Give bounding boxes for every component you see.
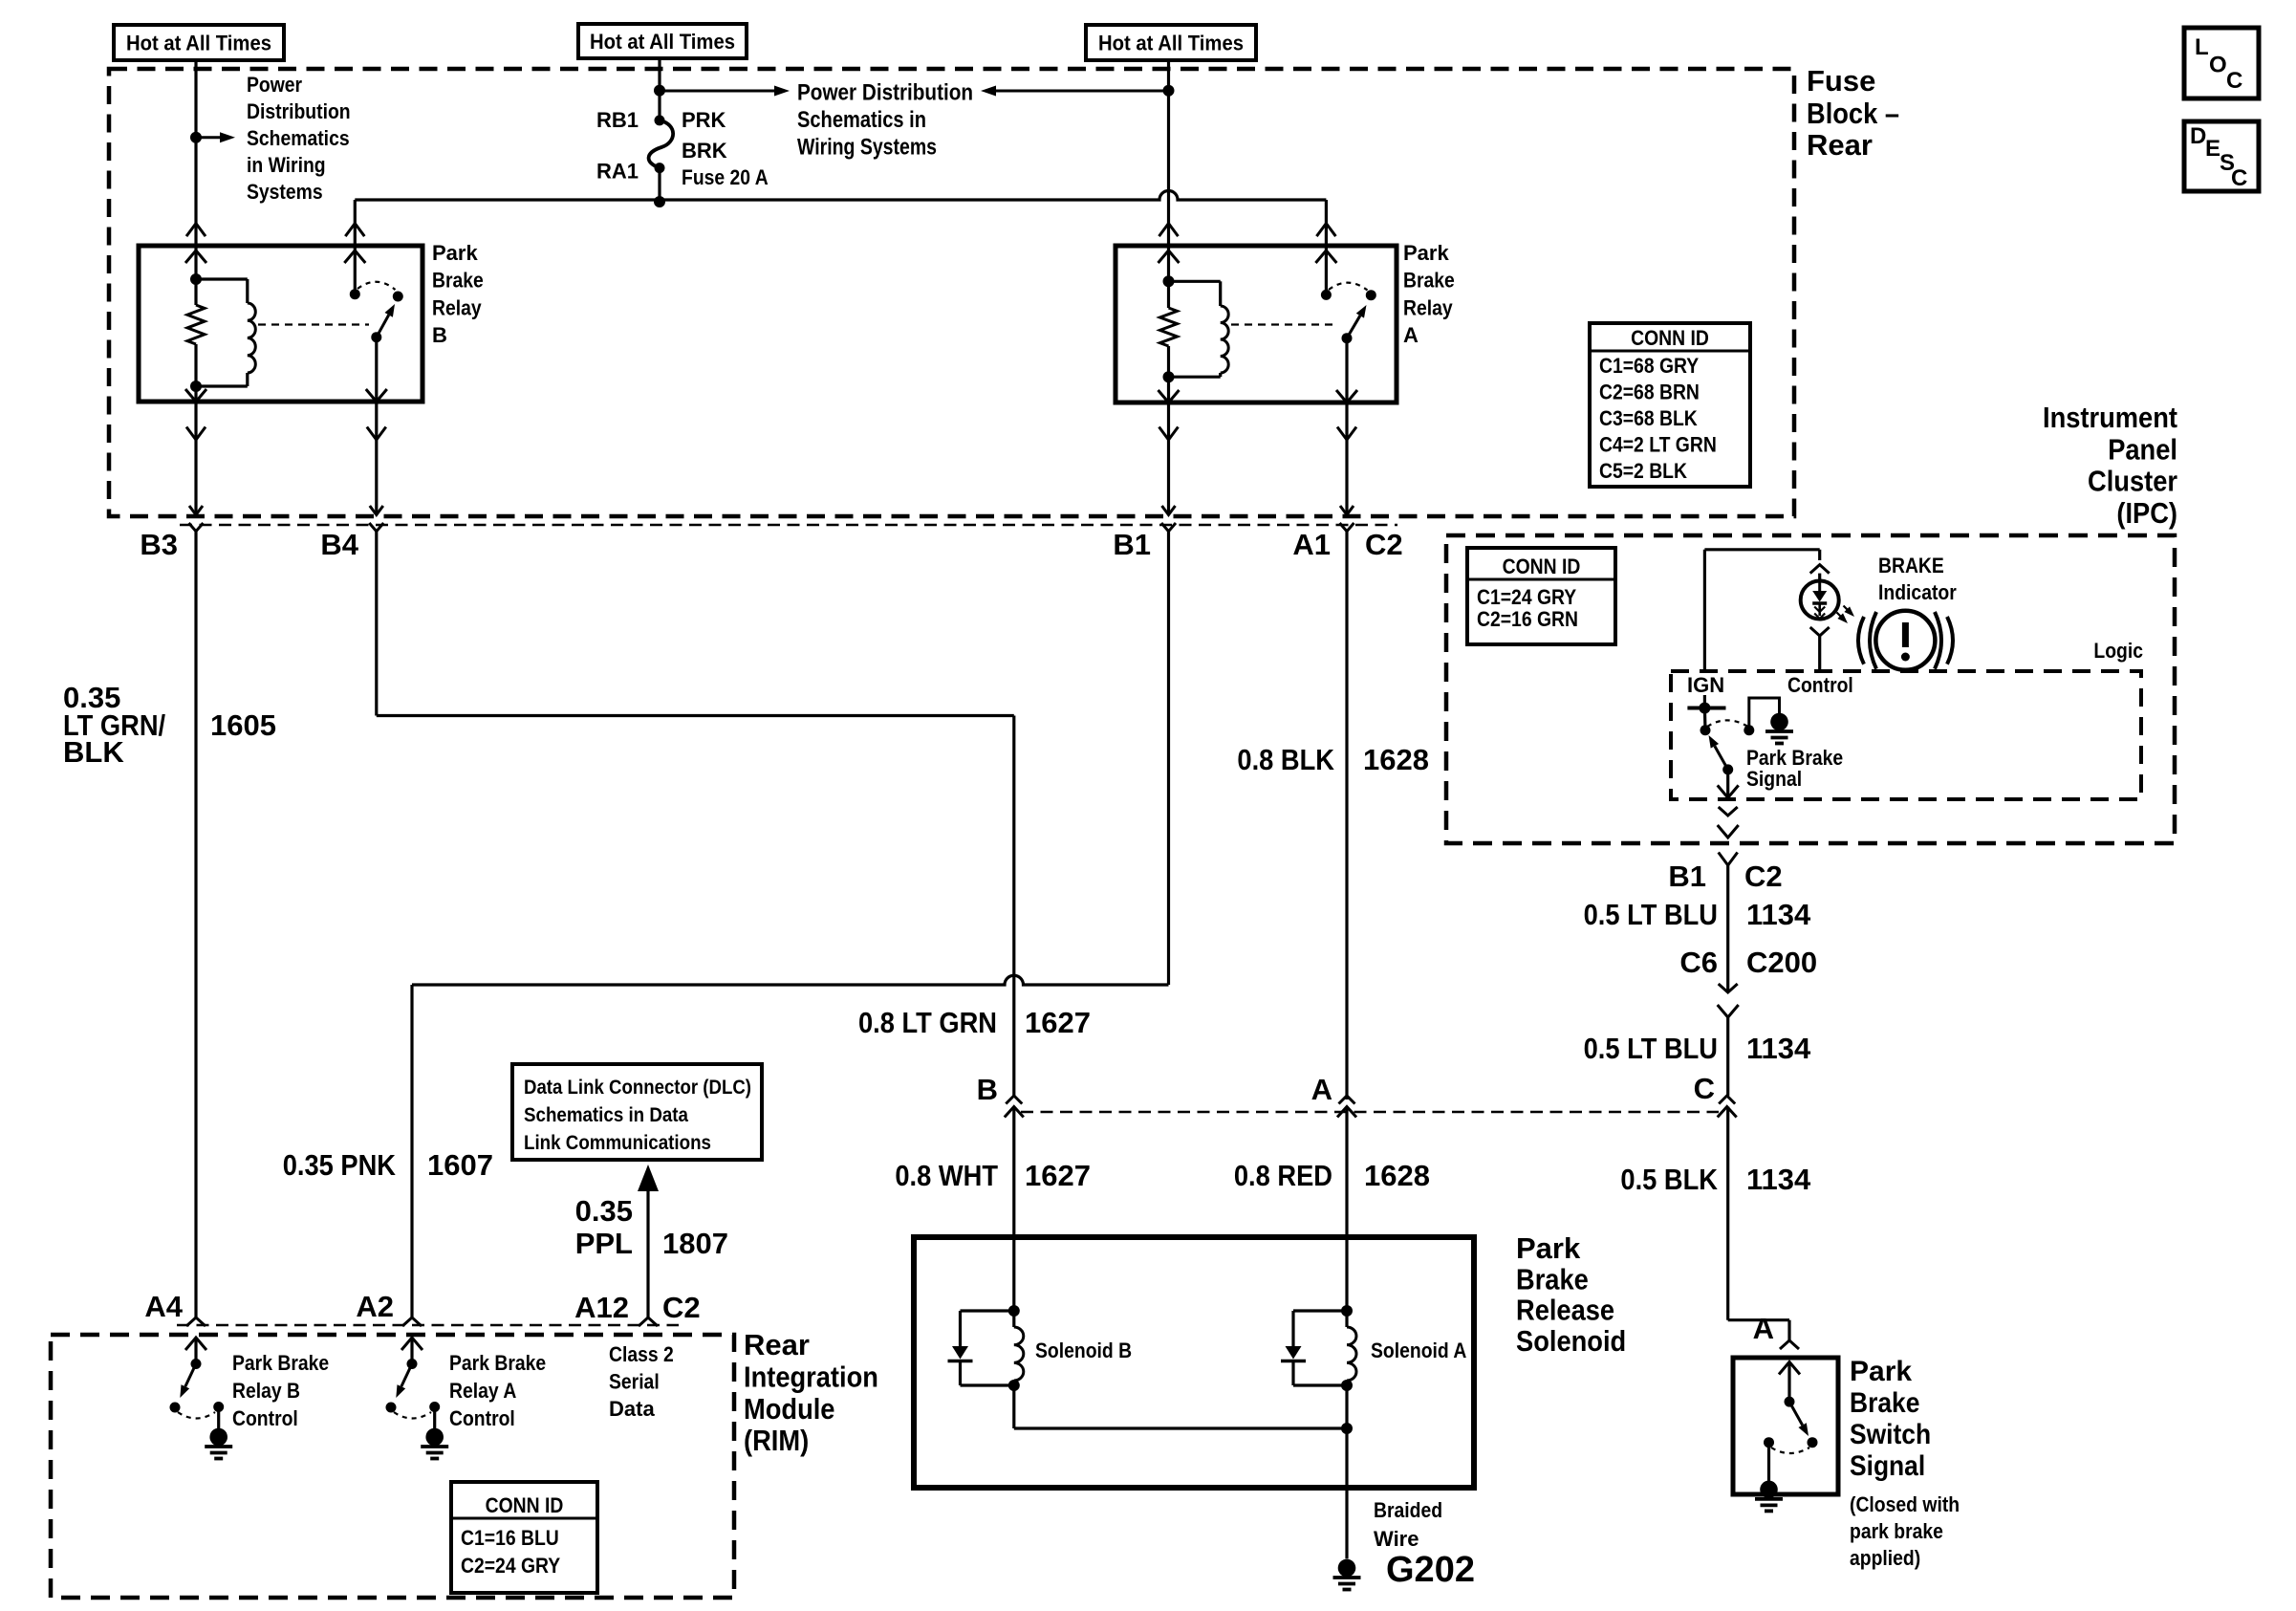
svg-text:B4: B4 (320, 528, 358, 561)
svg-text:Data: Data (609, 1397, 655, 1421)
svg-text:B1: B1 (1113, 528, 1151, 561)
svg-text:Panel: Panel (2108, 432, 2177, 466)
svg-text:C2=68 BRN: C2=68 BRN (1599, 381, 1700, 404)
svg-text:1807: 1807 (662, 1227, 728, 1260)
svg-text:O: O (2209, 53, 2227, 78)
svg-text:Integration: Integration (744, 1360, 878, 1393)
svg-text:C4=2 LT GRN: C4=2 LT GRN (1599, 433, 1717, 457)
svg-text:0.5 LT BLU: 0.5 LT BLU (1584, 898, 1718, 931)
svg-text:G202: G202 (1386, 1550, 1475, 1590)
svg-text:0.8 WHT: 0.8 WHT (895, 1159, 998, 1192)
svg-text:RA1: RA1 (596, 160, 639, 184)
svg-text:Switch: Switch (1850, 1419, 1931, 1450)
svg-text:1628: 1628 (1364, 1159, 1430, 1192)
svg-text:BRK: BRK (682, 139, 727, 163)
svg-text:C6: C6 (1679, 946, 1718, 979)
svg-text:B: B (977, 1073, 998, 1106)
svg-text:(Closed with: (Closed with (1850, 1492, 1960, 1516)
svg-text:Relay A: Relay A (449, 1379, 516, 1403)
svg-text:C5=2 BLK: C5=2 BLK (1599, 459, 1687, 483)
svg-text:C2=16 GRN: C2=16 GRN (1477, 607, 1578, 631)
svg-text:D: D (2190, 123, 2206, 149)
svg-text:1134: 1134 (1746, 898, 1811, 931)
svg-text:E: E (2205, 136, 2220, 162)
svg-text:B: B (432, 323, 447, 347)
svg-text:Relay B: Relay B (232, 1379, 300, 1403)
svg-text:A1: A1 (1292, 528, 1331, 561)
svg-text:Control: Control (449, 1406, 515, 1430)
svg-text:Control: Control (1787, 673, 1853, 697)
svg-text:applied): applied) (1850, 1546, 1920, 1570)
svg-text:Schematics: Schematics (247, 126, 350, 150)
svg-text:C2: C2 (1744, 860, 1783, 893)
svg-text:A12: A12 (574, 1291, 629, 1324)
svg-text:A4: A4 (144, 1290, 183, 1323)
svg-text:CONN ID: CONN ID (486, 1493, 564, 1517)
svg-text:Rear: Rear (1807, 128, 1873, 162)
svg-text:Park: Park (1516, 1231, 1581, 1265)
svg-text:Rear: Rear (744, 1328, 810, 1361)
svg-text:0.5 BLK: 0.5 BLK (1620, 1163, 1718, 1196)
svg-text:Systems: Systems (247, 180, 323, 204)
svg-text:Data Link Connector (DLC): Data Link Connector (DLC) (524, 1077, 751, 1099)
svg-text:Solenoid B: Solenoid B (1035, 1339, 1132, 1362)
svg-text:C: C (2231, 165, 2247, 191)
svg-text:1607: 1607 (427, 1148, 493, 1182)
svg-text:Wiring Systems: Wiring Systems (797, 135, 937, 161)
svg-text:(RIM): (RIM) (744, 1424, 809, 1457)
svg-text:B3: B3 (140, 528, 178, 561)
svg-text:Brake: Brake (1403, 269, 1455, 293)
svg-text:park brake: park brake (1850, 1519, 1943, 1543)
svg-text:Braided: Braided (1374, 1498, 1442, 1522)
svg-text:Wire: Wire (1374, 1527, 1419, 1551)
svg-text:BRAKE: BRAKE (1878, 554, 1944, 577)
svg-text:RB1: RB1 (596, 108, 639, 132)
svg-text:Relay: Relay (432, 295, 482, 319)
svg-text:C1=68 GRY: C1=68 GRY (1599, 354, 1699, 378)
svg-text:Class 2: Class 2 (609, 1342, 674, 1366)
svg-text:1628: 1628 (1363, 743, 1429, 776)
svg-text:Park: Park (1850, 1356, 1912, 1387)
svg-text:Brake: Brake (432, 269, 484, 293)
svg-text:Indicator: Indicator (1878, 580, 1957, 604)
svg-text:A: A (1403, 323, 1419, 347)
svg-text:Park: Park (432, 241, 478, 265)
svg-text:0.8 LT GRN: 0.8 LT GRN (858, 1006, 997, 1039)
svg-text:Brake: Brake (1516, 1262, 1589, 1295)
svg-text:0.8 BLK: 0.8 BLK (1237, 743, 1334, 776)
svg-text:A: A (1753, 1312, 1774, 1345)
svg-text:C2: C2 (1365, 528, 1403, 561)
svg-text:Hot at All Times: Hot at All Times (126, 32, 271, 55)
svg-text:C1=16 BLU: C1=16 BLU (461, 1526, 559, 1550)
svg-text:C2: C2 (662, 1291, 701, 1324)
svg-text:Power: Power (247, 73, 302, 97)
svg-text:C: C (1694, 1072, 1715, 1105)
svg-text:C: C (2226, 68, 2242, 94)
svg-text:1605: 1605 (210, 708, 276, 742)
svg-text:B1: B1 (1668, 860, 1706, 893)
svg-text:1627: 1627 (1025, 1159, 1091, 1192)
svg-text:0.35: 0.35 (575, 1194, 633, 1228)
svg-text:Power Distribution: Power Distribution (797, 80, 973, 106)
svg-text:(IPC): (IPC) (2116, 496, 2177, 530)
svg-text:Schematics in Data: Schematics in Data (524, 1104, 688, 1126)
svg-text:C3=68 BLK: C3=68 BLK (1599, 406, 1698, 430)
svg-text:in Wiring: in Wiring (247, 153, 326, 177)
svg-text:1134: 1134 (1746, 1163, 1811, 1196)
svg-text:Module: Module (744, 1392, 835, 1426)
svg-text:1627: 1627 (1025, 1006, 1091, 1039)
svg-text:Park: Park (1403, 241, 1449, 265)
svg-text:C1=24 GRY: C1=24 GRY (1477, 585, 1576, 609)
svg-text:Solenoid A: Solenoid A (1371, 1339, 1466, 1362)
svg-text:CONN ID: CONN ID (1631, 326, 1709, 350)
svg-text:0.8 RED: 0.8 RED (1234, 1159, 1332, 1192)
svg-text:Fuse: Fuse (1807, 64, 1875, 98)
svg-text:A2: A2 (356, 1290, 394, 1323)
svg-text:L: L (2195, 34, 2209, 60)
svg-text:IGN: IGN (1687, 673, 1724, 697)
svg-text:Park Brake: Park Brake (449, 1351, 546, 1375)
svg-text:C2=24 GRY: C2=24 GRY (461, 1554, 560, 1578)
svg-text:Signal: Signal (1850, 1450, 1925, 1482)
svg-text:PPL: PPL (575, 1227, 633, 1260)
svg-text:Schematics in: Schematics in (797, 107, 926, 133)
svg-text:Release: Release (1516, 1294, 1614, 1327)
svg-text:BLK: BLK (63, 735, 124, 769)
svg-text:0.5 LT BLU: 0.5 LT BLU (1584, 1032, 1718, 1065)
svg-text:0.35 PNK: 0.35 PNK (283, 1148, 397, 1182)
svg-text:Block –: Block – (1807, 97, 1899, 130)
svg-text:Signal: Signal (1746, 767, 1802, 791)
svg-text:Instrument: Instrument (2043, 401, 2177, 434)
svg-text:Hot at All Times: Hot at All Times (590, 30, 735, 54)
svg-text:CONN ID: CONN ID (1503, 555, 1581, 578)
svg-text:Relay: Relay (1403, 295, 1453, 319)
svg-text:Brake: Brake (1850, 1387, 1919, 1419)
svg-text:Logic: Logic (2093, 639, 2143, 663)
svg-text:Solenoid: Solenoid (1516, 1324, 1626, 1358)
svg-text:Fuse 20 A: Fuse 20 A (682, 165, 769, 189)
svg-text:Cluster: Cluster (2088, 465, 2177, 498)
svg-text:Control: Control (232, 1406, 298, 1430)
svg-text:Hot at All Times: Hot at All Times (1098, 32, 1244, 55)
svg-text:PRK: PRK (682, 108, 726, 132)
svg-text:Link Communications: Link Communications (524, 1132, 711, 1154)
svg-text:C200: C200 (1746, 946, 1817, 979)
svg-text:A: A (1311, 1073, 1332, 1106)
svg-text:1134: 1134 (1746, 1032, 1811, 1065)
svg-text:Park Brake: Park Brake (232, 1351, 329, 1375)
svg-text:Serial: Serial (609, 1370, 660, 1394)
svg-text:Distribution: Distribution (247, 99, 351, 123)
